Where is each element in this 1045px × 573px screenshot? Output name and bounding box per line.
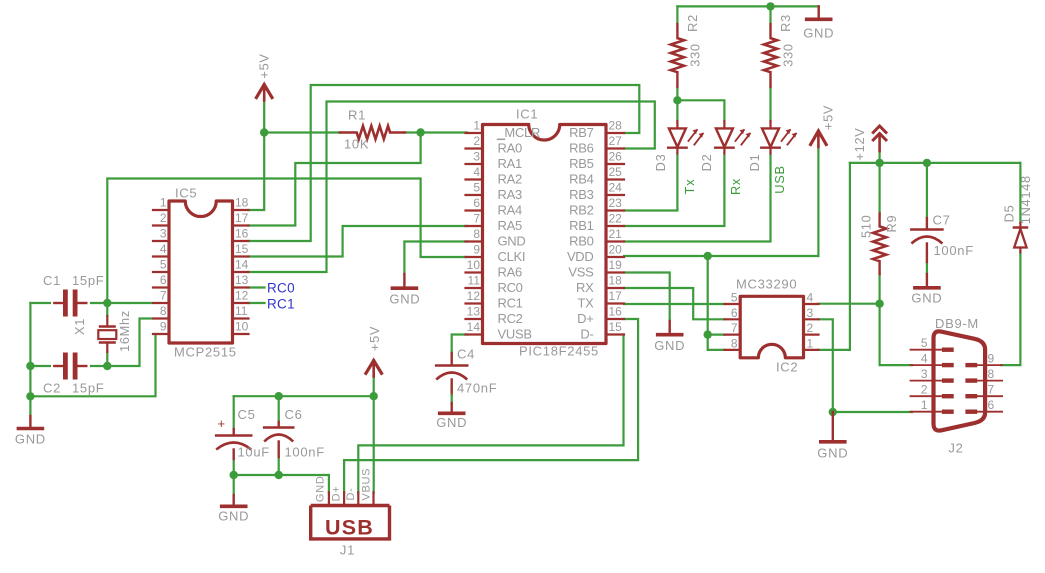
svg-text:9: 9 — [988, 352, 995, 366]
IC IC2 MC33290 — [725, 277, 819, 375]
svg-text:RC0: RC0 — [267, 281, 295, 296]
svg-text:23: 23 — [609, 196, 623, 210]
svg-text:GND: GND — [15, 432, 46, 447]
svg-text:RB3: RB3 — [569, 187, 593, 202]
svg-text:26: 26 — [609, 150, 623, 164]
capacitor C1 15pF — [43, 273, 104, 317]
ground (IC1 pin8) — [389, 274, 420, 307]
svg-text:D-: D- — [580, 327, 593, 342]
svg-text:D5: D5 — [1001, 205, 1016, 223]
wire D5 to DB9 pin9 — [1001, 252, 1020, 365]
svg-text:16: 16 — [235, 227, 249, 241]
node IC2 pin7 branch — [704, 330, 712, 338]
wire C2 left — [30, 365, 50, 367]
node C1/C2 left — [26, 362, 34, 370]
wire D1 to IC1 pin21 (USB) — [624, 153, 771, 242]
svg-text:VDD: VDD — [567, 249, 594, 264]
svg-text:RC0: RC0 — [498, 280, 523, 295]
svg-text:1: 1 — [473, 119, 480, 133]
svg-text:C6: C6 — [285, 407, 303, 422]
wire IC1 pin19 VSS to GND — [624, 273, 670, 322]
resistor R1 10K — [340, 108, 405, 152]
wire K-line junction to DB9 pin4 — [880, 304, 912, 365]
svg-text:7: 7 — [731, 321, 738, 335]
svg-text:10K: 10K — [344, 137, 369, 152]
svg-text:6: 6 — [160, 273, 167, 287]
wire IC5 pin16 to IC1 pin28 — [249, 85, 640, 241]
wire IC1 pin8 GND — [404, 242, 467, 275]
svg-text:RC1: RC1 — [498, 296, 523, 311]
+5V supply (USB) — [366, 326, 382, 377]
svg-text:21: 21 — [609, 227, 623, 241]
svg-text:GND: GND — [817, 446, 848, 461]
svg-text:RA4: RA4 — [498, 203, 522, 218]
LED D3 (Tx) — [653, 121, 704, 171]
svg-text:USB: USB — [325, 516, 374, 540]
svg-text:PIC18F2455: PIC18F2455 — [519, 344, 599, 359]
svg-text:16Mhz: 16Mhz — [117, 310, 132, 352]
svg-text:11: 11 — [468, 274, 481, 288]
svg-text:7: 7 — [160, 289, 167, 303]
wire IC1 D- pin15 to USB — [358, 335, 623, 494]
svg-text:J1: J1 — [340, 543, 355, 558]
svg-text:16: 16 — [609, 305, 623, 319]
wire C7 top — [926, 163, 928, 218]
svg-text:C5: C5 — [238, 407, 256, 422]
svg-text:J2: J2 — [948, 441, 963, 456]
wire VBUS column — [373, 377, 375, 493]
svg-text:RA3: RA3 — [498, 187, 522, 202]
svg-text:GND: GND — [654, 338, 685, 353]
svg-text:1: 1 — [807, 336, 814, 350]
svg-text:100nF: 100nF — [285, 445, 325, 460]
svg-text:14: 14 — [467, 320, 481, 334]
wire IC1 TX to IC2 pin5 — [624, 303, 725, 305]
wire R3 bottom to D1 — [769, 86, 771, 122]
wire R2 top — [676, 6, 678, 24]
svg-text:8: 8 — [988, 367, 995, 381]
svg-text:R2: R2 — [685, 14, 700, 32]
node OSC1 — [103, 299, 111, 307]
svg-text:1: 1 — [921, 398, 928, 412]
svg-text:+5V: +5V — [367, 326, 382, 351]
svg-text:IC2: IC2 — [776, 360, 798, 375]
svg-text:6: 6 — [731, 306, 738, 320]
ground (crystal area) — [15, 416, 46, 447]
svg-text:7: 7 — [988, 383, 995, 397]
svg-text:1N4148: 1N4148 — [1018, 175, 1033, 224]
wire +5V rail above C5 C6 — [234, 395, 374, 397]
svg-text:D-: D- — [345, 487, 357, 500]
svg-text:RB0: RB0 — [569, 234, 593, 249]
svg-text:+: + — [218, 416, 226, 431]
svg-text:Rx: Rx — [728, 178, 743, 195]
svg-text:CLKI: CLKI — [498, 249, 526, 264]
svg-text:C4: C4 — [457, 347, 475, 362]
IC IC5 MCP2515 — [153, 186, 249, 360]
wire D3 to IC1 pin23 (Tx) — [624, 153, 677, 211]
wire IC5 pin12 to RC1 label — [249, 302, 265, 304]
svg-text:IC5: IC5 — [175, 186, 197, 201]
svg-text:8: 8 — [160, 304, 167, 318]
wire ground rail C5 C6 USB — [234, 459, 329, 493]
wire C6 top stub — [278, 396, 280, 422]
svg-text:RB7: RB7 — [569, 125, 593, 140]
capacitor C4 470nF — [436, 347, 497, 412]
svg-text:3: 3 — [473, 150, 480, 164]
svg-text:X1: X1 — [72, 318, 87, 335]
svg-text:C2: C2 — [43, 381, 61, 396]
svg-text:USB: USB — [772, 165, 787, 193]
wire C1 left — [30, 302, 50, 304]
svg-text:RA5: RA5 — [498, 218, 522, 233]
svg-text:22: 22 — [609, 212, 623, 226]
svg-text:RX: RX — [576, 280, 594, 295]
svg-text:5: 5 — [473, 181, 480, 195]
LED D2 (Rx) — [699, 121, 751, 171]
wire IC5 pin9 to ground rail — [30, 334, 155, 396]
svg-text:9: 9 — [473, 243, 480, 257]
svg-text:MC33290: MC33290 — [736, 277, 797, 292]
node C7 top — [923, 159, 931, 167]
capacitor C5 10uF — [216, 407, 270, 460]
svg-text:9: 9 — [160, 320, 167, 334]
node VDD — [704, 252, 712, 260]
svg-text:2: 2 — [921, 383, 928, 397]
svg-text:2: 2 — [473, 134, 480, 148]
ground (top right) — [803, 6, 834, 40]
capacitor C7 100nF — [911, 213, 973, 287]
node C6 top — [275, 392, 283, 400]
net label RC0 — [267, 281, 295, 296]
wire C5 junction to GND — [233, 475, 235, 495]
svg-text:4: 4 — [921, 352, 928, 366]
+12V supply — [852, 126, 887, 161]
svg-text:RA2: RA2 — [498, 172, 522, 187]
svg-text:5: 5 — [731, 291, 738, 305]
node C6 bottom — [275, 471, 283, 479]
svg-text:17: 17 — [235, 211, 249, 225]
svg-text:13: 13 — [467, 305, 481, 319]
wire +5V arrow to MCLR junction — [263, 100, 265, 133]
svg-text:12: 12 — [235, 289, 249, 303]
svg-text:GND: GND — [389, 292, 420, 307]
node +12V — [875, 159, 883, 167]
svg-text:RB1: RB1 — [569, 218, 593, 233]
node C5 bottom — [230, 471, 238, 479]
wire GND junction to DB9 pin1 — [833, 411, 912, 413]
wire +12V chevron stem — [878, 150, 880, 163]
svg-text:R3: R3 — [778, 14, 793, 32]
node MCLR/R1 — [416, 128, 424, 136]
wire VDD +5V rail — [624, 255, 818, 257]
svg-text:GND: GND — [911, 291, 942, 306]
ground below C4 — [436, 413, 467, 430]
USB connector J1 — [311, 468, 390, 558]
svg-text:3: 3 — [807, 306, 814, 320]
svg-text:GND: GND — [803, 26, 834, 41]
svg-text:15: 15 — [235, 242, 249, 256]
net label Tx — [682, 179, 697, 195]
svg-text:+12V: +12V — [852, 127, 867, 160]
net label RC1 — [267, 297, 295, 312]
svg-text:DB9-M: DB9-M — [935, 316, 979, 331]
svg-text:27: 27 — [609, 134, 623, 148]
svg-text:28: 28 — [609, 119, 623, 133]
svg-text:510: 510 — [858, 215, 873, 238]
svg-text:10: 10 — [235, 320, 249, 334]
svg-text:330: 330 — [781, 43, 796, 66]
wire left rail C1-C2-GND — [29, 303, 31, 416]
ground (ISO area) — [817, 412, 848, 461]
svg-text:GND: GND — [498, 234, 526, 249]
wire C1 right to crystal node — [91, 302, 151, 304]
svg-text:4: 4 — [160, 242, 167, 256]
wire +12V rail right down to D5 — [1019, 163, 1021, 223]
resistor R3 330 — [764, 14, 796, 87]
svg-text:8: 8 — [731, 336, 738, 350]
svg-text:RC2: RC2 — [498, 311, 523, 326]
svg-text:15pF: 15pF — [72, 381, 104, 396]
wire crystal column — [106, 303, 108, 366]
svg-text:GND: GND — [314, 476, 326, 503]
wire VDD junction down to IC2 pins 7-8 — [708, 256, 725, 350]
svg-text:+5V: +5V — [820, 105, 835, 130]
wire MCLR junction to R1 left — [264, 131, 341, 133]
svg-text:GND: GND — [218, 509, 249, 524]
wire branch to IC2 pin7 — [708, 334, 725, 336]
svg-text:14: 14 — [235, 258, 249, 272]
svg-text:18: 18 — [235, 196, 249, 210]
svg-text:R1: R1 — [348, 108, 366, 123]
wire R3 top — [769, 6, 771, 24]
node K-line — [875, 300, 883, 308]
svg-text:10uF: 10uF — [238, 445, 270, 460]
svg-text:470nF: 470nF — [457, 381, 497, 396]
svg-text:D2: D2 — [699, 154, 714, 172]
svg-text:D3: D3 — [653, 154, 668, 172]
svg-text:17: 17 — [609, 289, 623, 303]
wire C5 top stub — [233, 396, 235, 429]
svg-text:D1: D1 — [747, 154, 762, 172]
node OSC2 — [103, 362, 111, 370]
wire IC5 pin14 to IC1 pin27 — [249, 102, 655, 273]
svg-text:C1: C1 — [43, 273, 61, 288]
node MCLR/+5V — [260, 128, 268, 136]
wire C6 bottom — [278, 457, 280, 475]
wire R9 top — [878, 163, 880, 214]
svg-text:2: 2 — [160, 211, 167, 225]
svg-text:Tx: Tx — [682, 179, 697, 195]
wire IC1 RX to IC2 pin6 — [624, 288, 725, 319]
wire IC2 pin4 to K-line junction — [819, 303, 880, 305]
svg-text:RB5: RB5 — [569, 156, 593, 171]
resistor R9 510 — [858, 214, 899, 275]
node VBUS/+5V — [370, 392, 378, 400]
svg-text:RA1: RA1 — [498, 156, 522, 171]
svg-text:VSS: VSS — [568, 265, 594, 280]
node R3 top — [766, 2, 774, 10]
svg-text:18: 18 — [609, 274, 623, 288]
svg-text:8: 8 — [473, 227, 480, 241]
wire +5V arrow (LED area) stem — [817, 149, 819, 256]
svg-text:MCP2515: MCP2515 — [174, 345, 237, 360]
+5V supply (left) — [256, 53, 272, 100]
wire IC1 D+ pin16 to USB — [344, 319, 638, 493]
svg-text:RB2: RB2 — [569, 203, 593, 218]
wire C2 right to crystal bottom — [91, 365, 107, 367]
svg-text:D+: D+ — [330, 486, 342, 502]
wire C7 bottom segment — [926, 262, 928, 274]
wire crystal node to IC1 pin9 CLKI — [107, 179, 467, 304]
svg-text:4: 4 — [473, 165, 480, 179]
svg-text:IC1: IC1 — [516, 107, 538, 122]
wire LED junction to D3 — [676, 100, 678, 122]
wire +5V down to IC5 pin18 — [249, 133, 265, 211]
svg-text:_MCLR: _MCLR — [497, 125, 541, 140]
node ground rail left — [26, 392, 34, 400]
svg-text:RA0: RA0 — [498, 141, 522, 156]
svg-text:5: 5 — [921, 336, 928, 350]
svg-text:C7: C7 — [933, 213, 951, 228]
svg-text:VBUS: VBUS — [360, 468, 372, 501]
svg-text:24: 24 — [609, 181, 623, 195]
svg-text:12: 12 — [467, 289, 481, 303]
wire D2 to IC1 pin22 (Rx) — [624, 153, 724, 226]
svg-text:GND: GND — [436, 415, 467, 430]
svg-text:330: 330 — [688, 43, 703, 66]
wire crystal bottom to IC5 pin8 — [107, 319, 151, 367]
crystal X1 16Mhz — [72, 310, 132, 352]
svg-text:2: 2 — [807, 321, 814, 335]
svg-text:D+: D+ — [577, 311, 593, 326]
svg-text:R9: R9 — [884, 215, 899, 233]
svg-text:11: 11 — [235, 304, 248, 318]
net label USB — [772, 165, 787, 193]
svg-text:3: 3 — [921, 367, 928, 381]
node ISO ground — [829, 408, 837, 416]
ground (USB area) — [218, 495, 249, 524]
svg-text:1: 1 — [160, 196, 167, 210]
svg-text:TX: TX — [577, 296, 594, 311]
svg-text:13: 13 — [235, 273, 249, 287]
svg-text:RB6: RB6 — [569, 141, 593, 156]
svg-text:3: 3 — [160, 227, 167, 241]
svg-text:5: 5 — [160, 258, 167, 272]
DB9 connector J2 — [911, 316, 1003, 456]
net label Rx — [728, 178, 743, 195]
capacitor C6 100nF — [264, 407, 325, 460]
wire +12V rail — [850, 162, 1021, 164]
wire R1 right to IC1 pin1 — [404, 131, 467, 133]
svg-text:RA6: RA6 — [498, 265, 522, 280]
wire IC2 pin3 to GND junction — [819, 319, 833, 412]
ground below C7 — [911, 288, 942, 306]
wire MCLR to IC5 pin17 — [249, 133, 421, 226]
svg-text:15pF: 15pF — [72, 273, 104, 288]
IC IC1 PIC18F2455 — [466, 107, 625, 359]
wire R2 bottom to LED junction — [676, 86, 678, 100]
wire IC5 pin13 to RC0 label — [249, 286, 265, 288]
wire IC1 pin14 VUSB to C4 — [452, 335, 467, 354]
wire top rail R2-R3-GND — [677, 5, 818, 7]
+5V supply (LED area) — [811, 105, 836, 147]
svg-text:100nF: 100nF — [934, 243, 974, 258]
svg-text:7: 7 — [473, 212, 480, 226]
svg-text:RC1: RC1 — [267, 297, 295, 312]
svg-text:VUSB: VUSB — [498, 327, 532, 342]
svg-text:4: 4 — [807, 291, 814, 305]
svg-text:20: 20 — [609, 243, 623, 257]
svg-text:6: 6 — [473, 196, 480, 210]
svg-text:19: 19 — [609, 258, 623, 272]
svg-text:10: 10 — [467, 258, 481, 272]
svg-text:25: 25 — [609, 165, 623, 179]
svg-text:15: 15 — [609, 320, 623, 334]
node LED anode — [673, 96, 681, 104]
LED D1 (USB) — [747, 121, 797, 171]
svg-text:+5V: +5V — [257, 53, 272, 78]
capacitor C2 15pF — [43, 353, 104, 396]
diode D5 1N4148 — [1001, 175, 1033, 252]
svg-text:6: 6 — [988, 398, 995, 412]
wire +12V rail left down to IC2 pin1 — [819, 163, 850, 350]
ground (IC1 pin19) — [654, 321, 685, 353]
wire LED junction to D2 — [677, 100, 724, 122]
svg-text:RB4: RB4 — [569, 172, 593, 187]
wire IC5 pin15 to IC1 pin7 — [249, 226, 468, 257]
wire R9 bottom to K-line junction — [878, 273, 880, 304]
resistor R2 330 — [671, 14, 703, 87]
